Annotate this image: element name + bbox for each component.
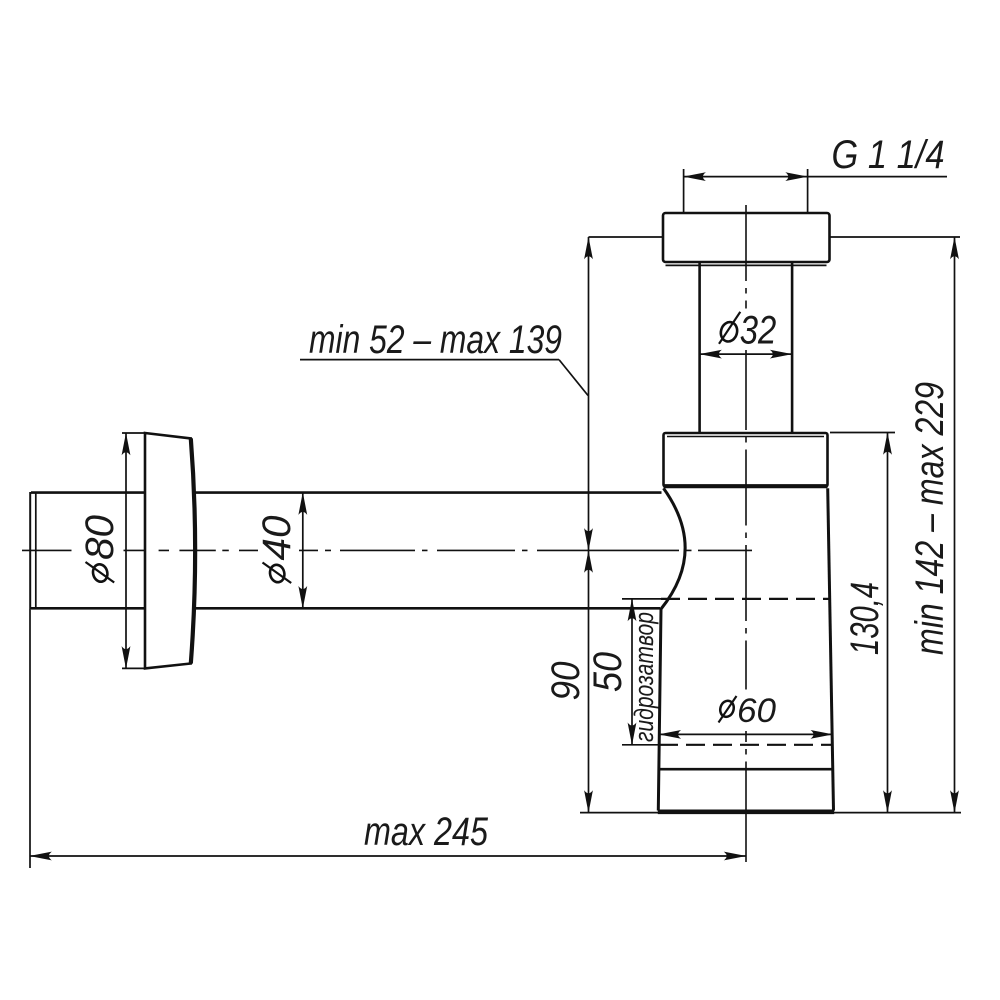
extension tick flange top	[122, 432, 146, 434]
leader slant min52	[559, 360, 588, 396]
dimension 130,4	[887, 433, 889, 813]
label 90 rotated	[544, 662, 588, 701]
label d40 rotated	[255, 516, 299, 584]
svg-text:130,4: 130,4	[843, 582, 887, 655]
dimension 50	[631, 599, 633, 745]
extension line G right	[807, 169, 809, 212]
dimension min52-max139 vertical	[588, 237, 590, 550]
svg-text:40: 40	[255, 516, 299, 561]
svg-text:90: 90	[544, 662, 588, 701]
collar top inner line	[667, 436, 824, 438]
label d32	[719, 308, 777, 352]
dimension max245	[30, 855, 746, 857]
neck tube d32 left wall	[698, 262, 701, 433]
pipe bottom line right of flange	[195, 607, 660, 610]
centerline vertical (body axis)	[745, 205, 747, 862]
extension max245 left	[29, 609, 31, 868]
collar bottom thick edge	[664, 484, 828, 488]
body right wall	[828, 488, 834, 810]
collar (body top nut)	[664, 433, 828, 487]
extension seg 50 bottom	[622, 744, 659, 746]
svg-text:60: 60	[737, 692, 776, 730]
dimension min142-max229	[954, 237, 956, 813]
dimension G 1 1/4	[684, 176, 808, 178]
svg-text:max 245: max 245	[364, 810, 489, 854]
dimension d40	[302, 493, 304, 609]
cup seam line	[658, 768, 833, 771]
hidden line tube bottom (dashed)	[659, 744, 833, 746]
svg-text:гидрозатвор: гидрозатвор	[629, 612, 659, 742]
label gidrozatvor rotated	[629, 612, 659, 742]
svg-text:80: 80	[78, 515, 122, 560]
svg-text:32: 32	[740, 308, 777, 352]
pipe top line right of flange	[195, 491, 662, 494]
svg-text:50: 50	[586, 652, 630, 692]
extension seg 50 top	[622, 598, 661, 600]
body left wall with inlet fillet	[658, 488, 685, 810]
pipe top line	[31, 491, 145, 494]
extension collar top right	[830, 432, 895, 434]
dimension d32	[700, 353, 793, 355]
nut (top coupling nut)	[663, 213, 830, 262]
label 130,4 rotated	[843, 582, 887, 655]
extension line y=237 right of nut	[830, 236, 961, 238]
pipe bottom line	[31, 607, 145, 610]
extension bottom y=812.6	[580, 812, 961, 814]
hidden line pipe inner bottom (dashed)	[661, 598, 830, 600]
nut bottom chamfer line	[666, 264, 827, 266]
cup bottom thick edge	[658, 809, 834, 814]
svg-text:G 1 1/4: G 1 1/4	[832, 133, 945, 177]
G dimension shelf	[808, 176, 947, 178]
extension line G left	[683, 169, 685, 212]
label 50 rotated	[586, 652, 630, 692]
svg-text:min 52 – max 139: min 52 – max 139	[309, 318, 562, 362]
pipe end inner edge	[35, 493, 37, 608]
extension line y=237 left of nut	[589, 236, 664, 238]
dimension 90 vertical	[588, 550, 590, 812]
svg-text:min 142 – max 229: min 142 – max 229	[908, 382, 952, 655]
flange right thick edge	[191, 438, 195, 663]
extension tick flange bottom	[122, 667, 146, 669]
label d80 rotated	[78, 515, 122, 583]
label d60	[718, 692, 776, 730]
label min 142 - max 229 rotated	[908, 382, 952, 655]
dimension d80	[125, 433, 127, 668]
centerline horizontal (pipe axis)	[22, 549, 752, 551]
dimension d60	[659, 733, 833, 735]
neck tube d32 right wall	[791, 262, 794, 433]
leader shelf min52	[300, 359, 559, 361]
flange (escutcheon cone)	[145, 433, 195, 668]
pipe end outer edge	[29, 492, 31, 609]
